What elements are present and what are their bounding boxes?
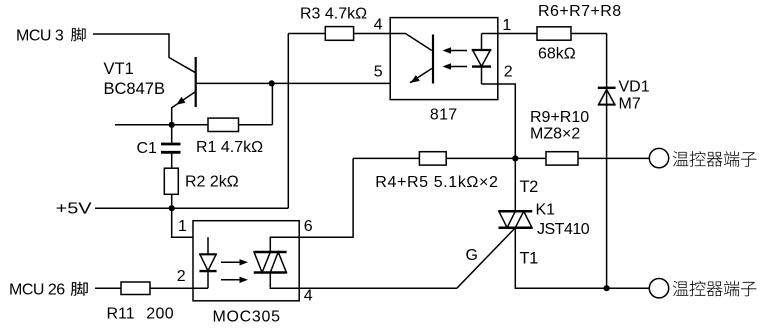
resistor R1 bbox=[208, 118, 239, 131]
opto 817 emitter bbox=[410, 69, 432, 83]
terminal circle top bbox=[649, 148, 668, 167]
wire MCU26 to R11 bbox=[95, 287, 121, 289]
opto 817 arrow 1 bbox=[446, 50, 467, 52]
opto MOC305 triac left triangle bbox=[254, 252, 270, 273]
wire +5V rail bbox=[95, 207, 288, 209]
terminal circle bottom bbox=[649, 279, 668, 298]
wire emitter node horizontal bbox=[115, 124, 272, 126]
node emitter junction bbox=[169, 122, 175, 128]
svg-text:R11: R11 bbox=[107, 306, 135, 323]
svg-text:MCU 3: MCU 3 bbox=[16, 28, 64, 45]
svg-text:6: 6 bbox=[304, 218, 313, 235]
wire R1 to base node bbox=[271, 83, 273, 124]
wire R6 to VD1 rail bbox=[571, 33, 607, 35]
svg-text:VD1: VD1 bbox=[619, 79, 650, 96]
opto MOC305 triac bottom bar bbox=[254, 271, 287, 273]
svg-text:R2 2kΩ: R2 2kΩ bbox=[185, 174, 239, 191]
opto MOC305 triac top bar bbox=[254, 251, 287, 253]
wire VT1 base to opto 817 pin5 bbox=[196, 82, 409, 84]
opto 817 phototransistor bar bbox=[432, 35, 434, 84]
svg-text:4: 4 bbox=[304, 288, 313, 305]
svg-text:R6+R7+R8: R6+R7+R8 bbox=[538, 3, 622, 20]
opto 817 led bbox=[481, 34, 483, 51]
node T2 junction bbox=[512, 155, 518, 161]
resistor R6+R7+R8 bbox=[537, 27, 571, 40]
svg-text:T2: T2 bbox=[520, 178, 539, 196]
node base junction bbox=[269, 80, 275, 86]
wire R11 to MOC pin2 bbox=[150, 287, 208, 289]
wire R3 row bbox=[288, 33, 390, 35]
svg-text:MOC305: MOC305 bbox=[213, 308, 281, 325]
node thermostat terminal bottom label bbox=[673, 281, 689, 296]
resistor R11 bbox=[121, 282, 150, 295]
wire VD1 rail down bbox=[606, 34, 608, 289]
node VD1 bottom junction bbox=[604, 285, 610, 291]
transistor VT1 emitter bbox=[172, 92, 196, 108]
opto 817 led internal wires bbox=[482, 33, 498, 35]
opto MOC305 triac pin6 wire bbox=[270, 237, 299, 252]
svg-text:68kΩ: 68kΩ bbox=[538, 46, 576, 63]
svg-text:M7: M7 bbox=[619, 96, 641, 113]
triac K1 left triangle bbox=[499, 211, 515, 227]
triac K1 top bar bbox=[499, 210, 533, 213]
wire R4R5 R9R10 row bbox=[353, 157, 649, 159]
wire K1 to bottom rail bbox=[515, 228, 649, 289]
resistor R3 bbox=[325, 27, 353, 41]
opto MOC305 triac pin4 wire bbox=[270, 273, 299, 289]
svg-text:4: 4 bbox=[374, 17, 383, 34]
svg-text:1: 1 bbox=[502, 17, 511, 34]
opto MOC305 arrow 1 bbox=[221, 261, 244, 263]
wire 817 pin2 down bbox=[498, 84, 516, 211]
opto MOC305 arrow 2 bbox=[221, 279, 244, 281]
svg-text:817: 817 bbox=[430, 106, 458, 123]
resistor R4+R5 bbox=[419, 152, 446, 165]
wire pin1 drop bbox=[172, 208, 208, 237]
capacitor C1 bbox=[171, 125, 173, 143]
svg-text:R4+R5 5.1kΩ×2: R4+R5 5.1kΩ×2 bbox=[375, 174, 498, 191]
svg-text:MCU 26: MCU 26 bbox=[9, 281, 65, 298]
svg-text:VT1: VT1 bbox=[104, 60, 134, 78]
diode VD1 bbox=[598, 87, 616, 89]
svg-text:MZ8×2: MZ8×2 bbox=[530, 126, 580, 143]
svg-text:C1: C1 bbox=[137, 140, 158, 157]
svg-text:5: 5 bbox=[374, 63, 383, 80]
node +5V junction bbox=[169, 205, 175, 211]
opto 817 box bbox=[390, 18, 498, 100]
wire pin6 riser bbox=[299, 158, 353, 237]
opto 817 collector bbox=[390, 34, 432, 51]
svg-text:1: 1 bbox=[178, 218, 187, 235]
opto 817 arrow 2 bbox=[446, 66, 467, 68]
triac K1 right triangle bbox=[515, 211, 532, 227]
svg-text:K1: K1 bbox=[536, 202, 556, 219]
svg-text:T1: T1 bbox=[520, 250, 539, 268]
opto MOC305 led bbox=[207, 237, 209, 254]
svg-text:+5V: +5V bbox=[56, 200, 92, 218]
resistor R9+R10 bbox=[546, 152, 578, 165]
wire +5V rail up to R3 bbox=[287, 34, 289, 209]
svg-text:BC847B: BC847B bbox=[104, 80, 165, 98]
svg-text:R3 4.7kΩ: R3 4.7kΩ bbox=[300, 6, 367, 23]
wire 817 pin1 to R6 bbox=[498, 33, 537, 35]
triac K1 bottom bar bbox=[499, 226, 533, 229]
wire MCU3 to VT1 base bbox=[93, 34, 196, 73]
svg-text:G: G bbox=[466, 247, 478, 264]
wire MOC pin4 out bbox=[299, 287, 457, 289]
svg-text:R1 4.7kΩ: R1 4.7kΩ bbox=[196, 139, 263, 156]
opto MOC305 box bbox=[193, 221, 299, 301]
svg-text:R9+R10: R9+R10 bbox=[530, 109, 589, 126]
node thermostat terminal top label bbox=[673, 151, 689, 166]
resistor R2 bbox=[164, 168, 178, 194]
wire emitter to C1 node bbox=[171, 107, 173, 125]
svg-text:JST410: JST410 bbox=[537, 221, 590, 238]
svg-text:200: 200 bbox=[146, 306, 174, 323]
svg-text:2: 2 bbox=[177, 268, 186, 285]
svg-text:2: 2 bbox=[504, 63, 513, 80]
transistor VT1 bar bbox=[195, 57, 197, 107]
opto MOC305 triac right triangle bbox=[270, 252, 286, 273]
wire gate diagonal bbox=[457, 229, 515, 289]
wire R2 to +5V rail bbox=[171, 194, 173, 208]
